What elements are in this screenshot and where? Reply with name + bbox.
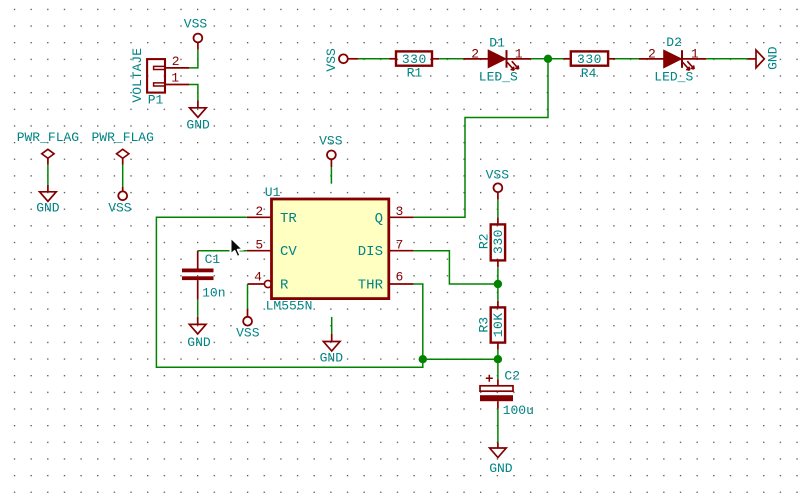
- svg-text:1: 1: [171, 71, 179, 86]
- wire R2 to junction: [497, 267, 499, 284]
- wire chip to GND below: [331, 317, 333, 334]
- junction THR column: [419, 355, 427, 363]
- svg-text:1: 1: [691, 47, 699, 62]
- svg-text:PWR_FLAG: PWR_FLAG: [91, 130, 153, 145]
- resistor R1 330: [389, 51, 439, 80]
- svg-text:R2: R2: [476, 233, 491, 249]
- svg-text:330: 330: [491, 229, 506, 254]
- svg-text:D2: D2: [666, 35, 682, 50]
- svg-text:330: 330: [577, 52, 602, 67]
- pin 4 R (inverted): [248, 270, 290, 294]
- wire PWR_FLAG2 to VSS: [122, 165, 124, 188]
- svg-text:GND: GND: [489, 461, 513, 476]
- wire C2 to GND: [497, 409, 499, 443]
- pin 3 Q: [375, 204, 414, 227]
- wire PWR_FLAG1 to GND: [47, 165, 49, 186]
- svg-text:C2: C2: [504, 369, 520, 384]
- svg-text:7: 7: [396, 237, 404, 252]
- svg-text:100u: 100u: [503, 403, 534, 418]
- LED D2 LED_S: [639, 35, 707, 84]
- ground GND (below C1): [187, 317, 211, 350]
- svg-text:2: 2: [471, 47, 479, 62]
- ground GND (below PWR_FLAG 1): [36, 185, 60, 216]
- svg-text:GND: GND: [186, 118, 210, 133]
- svg-text:TR: TR: [280, 211, 297, 227]
- connector P1 VOLTAJE: [130, 48, 190, 108]
- wire pin4 to VSS: [247, 284, 249, 309]
- svg-text:C1: C1: [205, 252, 221, 267]
- svg-text:GND: GND: [187, 335, 211, 350]
- junction top: [544, 55, 552, 63]
- svg-text:R1: R1: [407, 66, 423, 81]
- svg-text:2: 2: [648, 47, 656, 62]
- svg-text:VSS: VSS: [108, 200, 132, 215]
- wire P1 pin 1 to GND: [189, 85, 198, 101]
- ground GND (right, rotated): [748, 46, 781, 70]
- svg-text:10K: 10K: [491, 312, 506, 337]
- svg-text:6: 6: [396, 270, 404, 285]
- power port VSS (left of R1): [324, 48, 359, 72]
- wire D2 to GND right: [706, 58, 748, 60]
- flag PWR_FLAG 1 (left): [17, 130, 79, 164]
- pin 6 THR: [358, 270, 414, 294]
- svg-text:VOLTAJE: VOLTAJE: [130, 48, 145, 103]
- resistor R3 10K (vertical): [476, 284, 506, 350]
- svg-text:3: 3: [396, 204, 404, 219]
- wire TR loop (pin2 left, down, bottom): [156, 217, 422, 367]
- resistor R2 330 (vertical): [476, 217, 506, 267]
- svg-text:2: 2: [255, 204, 263, 219]
- capacitor C2 100u (polarized): [480, 369, 534, 418]
- svg-text:LED_S: LED_S: [654, 69, 693, 84]
- svg-text:PWR_FLAG: PWR_FLAG: [17, 130, 79, 145]
- svg-text:1: 1: [515, 47, 523, 62]
- ground GND (below C2): [489, 443, 513, 477]
- svg-text:2: 2: [172, 54, 180, 69]
- op-amp U1 LM555N body: [265, 185, 389, 313]
- wire R4 to D2: [615, 58, 638, 60]
- svg-text:R: R: [280, 277, 289, 293]
- svg-text:4: 4: [254, 270, 262, 285]
- wire C1 to GND: [197, 300, 199, 317]
- power port VSS (top, above P1): [184, 17, 208, 43]
- svg-text:R3: R3: [476, 317, 491, 333]
- ground GND (below P1): [186, 101, 210, 133]
- power port VSS (above U1): [319, 133, 343, 167]
- wire VSS to U1 top: [330, 167, 332, 184]
- power port VSS (above R2): [486, 167, 510, 192]
- power port VSS (below PWR_FLAG 2): [108, 187, 132, 215]
- svg-text:DIS: DIS: [358, 244, 383, 260]
- LED D1 LED_S: [463, 36, 531, 85]
- mouse cursor: [231, 237, 244, 257]
- svg-text:VSS: VSS: [184, 17, 208, 32]
- flag PWR_FLAG 2 (right): [91, 130, 153, 164]
- svg-text:P1: P1: [148, 92, 164, 107]
- wire junction row horizontal: [423, 358, 498, 360]
- wire VSS to R1: [358, 58, 389, 60]
- wire VSS to R2: [497, 192, 499, 199]
- svg-text:5: 5: [255, 237, 263, 252]
- wire D1 to junction: [531, 58, 564, 60]
- wire junction down and over to Q: [414, 63, 548, 218]
- capacitor C1 10n: [182, 251, 226, 301]
- svg-text:VSS: VSS: [486, 167, 510, 182]
- wire R1 to D1: [439, 58, 463, 60]
- svg-text:LM555N: LM555N: [266, 299, 313, 314]
- svg-text:R4: R4: [581, 66, 597, 81]
- svg-text:GND: GND: [36, 201, 60, 216]
- pin 5 CV: [247, 237, 298, 260]
- ground GND (below U1): [320, 334, 344, 365]
- svg-text:CV: CV: [280, 244, 297, 260]
- svg-text:VSS: VSS: [324, 48, 339, 72]
- pin 2 TR: [247, 204, 298, 227]
- svg-text:VSS: VSS: [319, 133, 343, 148]
- svg-text:THR: THR: [358, 277, 384, 293]
- resistor R4 330: [564, 51, 616, 81]
- wire DIS over and down: [414, 251, 498, 284]
- power port VSS (below pin 4): [236, 309, 260, 341]
- junction R3 bottom: [494, 355, 502, 363]
- svg-text:Q: Q: [375, 211, 383, 227]
- svg-text:10n: 10n: [202, 285, 225, 300]
- svg-text:GND: GND: [766, 46, 781, 70]
- svg-text:GND: GND: [320, 350, 344, 365]
- svg-text:VSS: VSS: [236, 325, 260, 340]
- wire VSS top to P1 pin 2: [197, 43, 199, 50]
- wire R3 to junction row: [497, 350, 499, 359]
- svg-text:D1: D1: [489, 36, 505, 51]
- svg-text:LED_S: LED_S: [479, 70, 518, 85]
- junction DIS/R2/R3: [494, 280, 502, 288]
- wire CV to C1: [198, 250, 247, 252]
- pin 7 DIS: [358, 237, 414, 260]
- wire junction to C2: [497, 359, 499, 379]
